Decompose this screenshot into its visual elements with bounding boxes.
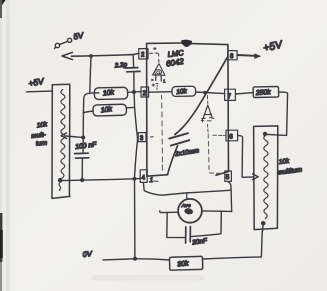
node: junction dot at 10k/pin wire (132, 90, 136, 94)
pin 3 box (138, 133, 146, 142)
wire: pin 7 to R4 (236, 93, 254, 94)
op-amp U1A triangle (152, 59, 165, 81)
wire: diagonal sensor line lower part (168, 146, 178, 175)
wire: down to buzzer right wire (230, 190, 233, 211)
resistor R2 10k (lower) (93, 104, 127, 116)
wire: R2 right lead to main vertical (126, 106, 134, 108)
wire: R4 right lead down to P2 top (267, 92, 288, 135)
wire: +5V rail to pot P1 (27, 90, 53, 93)
label 1- at pin4 (150, 177, 159, 184)
op-amp U1B (A-shaped) (201, 95, 214, 118)
pin 6 box (226, 130, 238, 141)
op-amp U1 IC body LMC6042 (147, 43, 229, 176)
svg-text:turn: turn (36, 140, 48, 148)
label 10k multiturn (P1) (31, 121, 48, 148)
svg-text:1: 1 (163, 79, 166, 85)
label 10k multiturn (P2) (277, 158, 303, 177)
wire: R1 left lead bending down (83, 93, 99, 113)
IC notch mark (181, 40, 192, 48)
wire: pin 8 to +5V arrow (237, 54, 254, 57)
wire: pin 6 to P2 wiper (238, 136, 254, 178)
wire: diagonal sensor line upper part to pin 8 (175, 58, 227, 135)
svg-text:1: 1 (150, 177, 154, 184)
wire: C4 bracket right (191, 212, 221, 236)
wire: pin1 to R3 to pin 7 (149, 91, 172, 94)
capacitor C3 sensor plates 2x10mm (169, 133, 189, 145)
resistor R5 30k (169, 256, 202, 270)
wire: P2 bottom dot to 0V (262, 226, 265, 232)
pin 7 box (225, 89, 236, 100)
capacitor C1 2.2p (125, 68, 140, 72)
node: junction dot on feedback wire (203, 91, 207, 95)
input arrow (62, 52, 73, 59)
wire: pin 5 down and long wire to pin 4 (143, 182, 231, 196)
wiper arrow P1 (61, 133, 83, 139)
dashed: U1B to pin 5 (208, 134, 225, 174)
dashed: U1B to pin 6 (213, 134, 226, 136)
pin 3 stub dash (150, 136, 153, 138)
svg-text:10k: 10k (278, 158, 290, 166)
pin 1 box (mid-left) (141, 87, 149, 97)
wire: R2 left lead (83, 111, 93, 113)
resistor R3 10k (feedback) (172, 86, 196, 96)
pin 2 box (139, 49, 148, 59)
potentiometer P2 body (254, 126, 278, 230)
wire: input line to pin 2 (72, 53, 139, 56)
node: P1 bottom terminal dot (58, 178, 63, 183)
node: P2 top terminal dot (263, 132, 267, 136)
bottom page shadow smudge (92, 275, 204, 281)
label a inside U1A (157, 71, 161, 74)
switch SW1 (0 / 5V source) (55, 38, 72, 48)
wire: 0V rail left of R5 (103, 259, 170, 260)
wire: stub from top wire to B1 (186, 193, 188, 200)
capacitor C4 20nF (186, 227, 191, 243)
dashed: U1A output down the IC (161, 96, 164, 171)
node: P2 bottom terminal dot (261, 221, 266, 226)
U1B pin marks (201, 119, 211, 132)
scan edge artifact bottom-left gray (0, 262, 2, 291)
wire: junction down to 10k R1 corner (90, 57, 91, 93)
wire: C4 bracket left (167, 213, 185, 238)
resistor R4 250k (253, 86, 279, 97)
node: C2 junction dot (80, 178, 84, 182)
svg-text:10k: 10k (100, 106, 113, 114)
wire: node line down to wiper junction and C2 (82, 113, 84, 153)
B1 center blob (184, 207, 194, 215)
node: switch junction (89, 54, 93, 58)
scan edge artifacts top-left corner (0, 0, 6, 7)
node: 0V junction dot (133, 257, 137, 261)
scan edge artifact left bar (0, 213, 2, 262)
potentiometer P1 resistive zigzag (61, 90, 65, 178)
+5V arrowhead (255, 54, 261, 59)
resistor R1 10k (upper) (94, 87, 127, 99)
wire: R1 right lead to pin box (128, 91, 142, 94)
P1 zigzag tail below dot (59, 183, 60, 191)
svg-text:10k: 10k (102, 89, 114, 97)
potentiometer P2 zigzag (264, 135, 268, 218)
capacitor C2 100nF (75, 153, 89, 180)
svg-text:250k: 250k (255, 89, 272, 97)
potentiometer P1 body (52, 84, 70, 198)
wire: P1 bottom to pin4 box (through junctions) (63, 178, 141, 180)
wire: R3 to pin 7 (196, 92, 225, 94)
svg-text:2.2p: 2.2p (113, 61, 127, 69)
svg-text:30k: 30k (177, 260, 189, 268)
wire: 0V rail right of R5 up to P2 bottom (203, 231, 262, 259)
pin 8 box (228, 51, 237, 60)
U1A pin marks (152, 79, 166, 90)
node: wiper junction dot (81, 136, 85, 140)
wire: B1 right lead (202, 210, 232, 213)
svg-text:Avc: Avc (181, 203, 191, 209)
wire: B1 left lead with hook (160, 211, 179, 213)
wiper arrowhead P2 (252, 174, 258, 180)
ink dot inside IC (153, 47, 156, 49)
node: main vertical junction dot on pot wire (133, 177, 137, 181)
buzzer B1 circle (178, 199, 202, 223)
wire: main vertical node line (pin2 cap / pin3 / down to 0V) (133, 55, 137, 259)
label LMC 6042 (165, 48, 185, 68)
svg-text:10k: 10k (176, 88, 188, 96)
pin 4 box (140, 170, 147, 183)
pin 5 box (225, 171, 232, 181)
dashed: pin2 to U1A input (150, 53, 159, 56)
